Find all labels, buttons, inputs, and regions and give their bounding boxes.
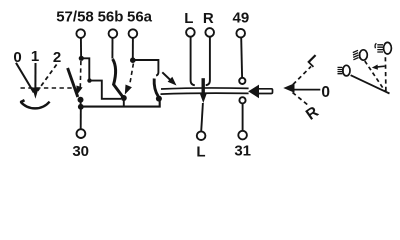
svg-text:49: 49 bbox=[233, 10, 250, 27]
rotary arrow down bbox=[32, 88, 39, 99]
svg-text:L: L bbox=[304, 52, 323, 71]
wire 56b down bbox=[111, 38, 113, 59]
arrowhead contact 2 bbox=[125, 85, 132, 95]
lever bar bbox=[201, 78, 204, 93]
svg-text:L: L bbox=[196, 144, 205, 161]
stub contact dot to bus bbox=[123, 100, 125, 106]
right fan dashed line to right icon bbox=[384, 57, 387, 92]
wire 31 bbox=[242, 103, 244, 130]
right fan lamp icon top (low beam hatched) bbox=[353, 50, 368, 60]
contact circle 49 bbox=[239, 78, 245, 84]
terminal L bottom circle bbox=[197, 131, 206, 140]
contact dot 56b landing bbox=[121, 95, 127, 101]
right fan dashed middle branch bbox=[365, 61, 385, 91]
contact dot 3 riser bbox=[156, 96, 162, 102]
bus wire 30 bbox=[81, 100, 160, 107]
rail lower bbox=[161, 92, 249, 95]
svg-text:R: R bbox=[303, 103, 322, 123]
wire 49 down bbox=[240, 38, 243, 78]
svg-text:1: 1 bbox=[31, 48, 39, 65]
blade contact 3 bbox=[154, 79, 158, 97]
actuator arrow left bbox=[248, 85, 259, 99]
rotary line position 1 bbox=[34, 63, 36, 89]
wire to 30 bbox=[80, 109, 82, 129]
svg-text:R: R bbox=[203, 10, 214, 27]
motion arrow contact 3 bbox=[162, 72, 170, 80]
svg-text:56a: 56a bbox=[127, 9, 153, 26]
dashed actuation line contact 2 bbox=[130, 64, 133, 84]
rail upper bbox=[161, 88, 249, 89]
terminal 56a circle bbox=[129, 29, 138, 38]
arc left tip flick bbox=[20, 100, 24, 102]
wire R down with hook bbox=[206, 37, 210, 85]
dashed actuation line contact 1 bbox=[79, 61, 82, 87]
svg-text:2: 2 bbox=[53, 49, 61, 66]
right fan line to left icon bbox=[351, 75, 390, 93]
terminal 31 circle bbox=[238, 131, 247, 140]
left fan apex arrow bbox=[283, 83, 294, 92]
lever arrowhead bbox=[200, 93, 208, 103]
right fan lamp icon left (high beam) bbox=[338, 65, 351, 76]
terminal 49 circle bbox=[236, 29, 245, 38]
right fan small left arrow between branches bbox=[378, 65, 385, 68]
blade contact 2 bbox=[113, 59, 124, 97]
left fan branch R dashed bbox=[293, 93, 309, 106]
terminal L circle bbox=[186, 28, 195, 37]
left fan branch L dashed bbox=[293, 67, 311, 85]
svg-text:L: L bbox=[184, 10, 193, 27]
corner dot step wire bbox=[87, 78, 91, 82]
wire 57/58 down bbox=[80, 38, 82, 56]
junction dot 57/58 bbox=[79, 56, 84, 61]
wire 56a to flash contact bbox=[133, 60, 159, 76]
actuator clevis bbox=[259, 89, 273, 94]
terminal 30 circle bbox=[77, 129, 86, 138]
svg-text:31: 31 bbox=[234, 143, 251, 160]
rotary line position 0 bbox=[16, 63, 34, 93]
rotary line position 2 dashed bbox=[38, 65, 57, 91]
terminal 57/58 circle bbox=[76, 29, 85, 38]
svg-text:0: 0 bbox=[321, 84, 330, 101]
left fan branch 0 bbox=[294, 89, 320, 91]
link contact1 to bus junction bbox=[80, 100, 82, 107]
contact circle below rails bbox=[239, 97, 245, 103]
wire 56a down bbox=[132, 38, 134, 59]
junction dot 56a bbox=[130, 57, 136, 63]
wire lever to L bottom bbox=[201, 103, 203, 131]
blade contact 1 bbox=[68, 68, 78, 97]
arrowhead contact 1 bbox=[76, 86, 82, 96]
contact dot 1 bbox=[78, 97, 84, 103]
terminal R circle bbox=[205, 28, 214, 37]
wire 57/58 step to contact bbox=[81, 58, 121, 99]
mechanical linkage dashed line bbox=[21, 87, 73, 89]
rotary detent arc bbox=[21, 102, 50, 109]
bus junction dot 30 bbox=[78, 104, 84, 110]
right fan lamp icon right bbox=[375, 42, 391, 54]
svg-text:30: 30 bbox=[72, 143, 89, 160]
terminal 56b circle bbox=[109, 29, 118, 38]
svg-text:56b: 56b bbox=[98, 9, 124, 26]
svg-text:57/58: 57/58 bbox=[56, 9, 94, 26]
wire L down with hook bbox=[191, 37, 195, 85]
